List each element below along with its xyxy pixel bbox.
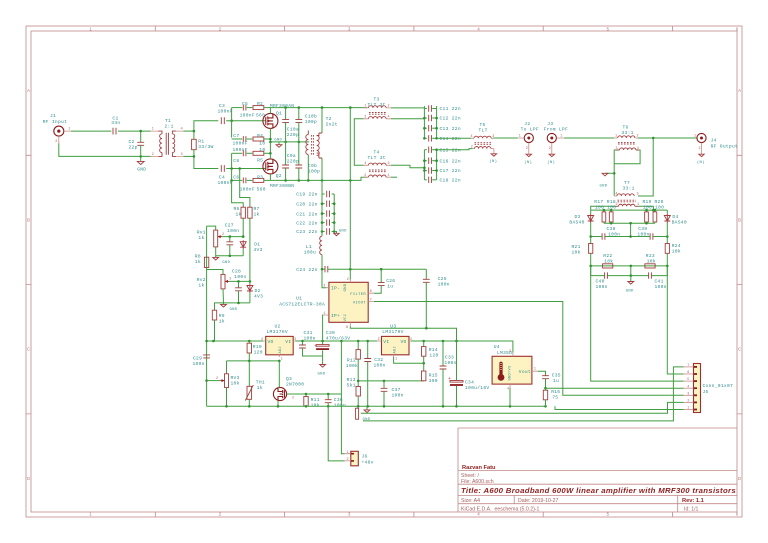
- svg-text:3: 3: [378, 338, 380, 342]
- svg-text:T7: T7: [624, 180, 630, 186]
- wire T4 pin1 stub: [391, 176, 397, 178]
- svg-text:100p: 100p: [308, 169, 320, 175]
- capacitor bank C15-C18: [423, 147, 461, 184]
- wire C40/C41 row: [591, 266, 605, 276]
- capacitor C30 470u/63V: [314, 330, 350, 356]
- wire J1 pin2 loop: [59, 144, 151, 157]
- svg-text:18k: 18k: [604, 259, 613, 265]
- svg-text:T5: T5: [480, 122, 486, 128]
- svg-text:2: 2: [55, 140, 57, 144]
- svg-text:VI: VI: [285, 339, 291, 345]
- capacitor C35: [538, 371, 561, 388]
- transformer T6 33:1: [614, 124, 639, 150]
- svg-text:GND=VS: GND=VS: [509, 365, 513, 381]
- svg-text:TLT 3t: TLT 3t: [368, 102, 386, 108]
- svg-text:GND: GND: [344, 283, 348, 291]
- wire Q2 drain to bottom rail: [269, 174, 271, 181]
- svg-text:R16: R16: [551, 389, 560, 395]
- resistor R22: [603, 253, 614, 268]
- svg-text:100nF: 100nF: [218, 108, 233, 114]
- ground below C2: [137, 156, 146, 172]
- svg-text:C13 22n: C13 22n: [440, 126, 461, 132]
- resistor R19: [643, 199, 653, 223]
- wire detector bottom rail: [591, 265, 668, 267]
- svg-text:FILTER: FILTER: [350, 293, 366, 297]
- wire R16 node to J5 pin4: [546, 387, 684, 389]
- transformer T7 33:1: [614, 180, 639, 207]
- svg-text:C33: C33: [445, 355, 454, 361]
- svg-text:C15 22n: C15 22n: [440, 147, 461, 153]
- svg-text:3: 3: [364, 116, 366, 120]
- svg-text:R12: R12: [347, 357, 356, 363]
- svg-text:1: 1: [615, 135, 617, 139]
- svg-text:R10: R10: [253, 344, 262, 350]
- svg-text:1: 1: [694, 135, 696, 139]
- svg-text:+: +: [448, 376, 451, 382]
- svg-text:100: 100: [607, 204, 616, 210]
- wire C1 to T1: [118, 130, 151, 132]
- svg-text:5k1: 5k1: [347, 383, 356, 389]
- svg-text:A: A: [27, 88, 30, 93]
- wire J4 node to T7: [638, 138, 653, 196]
- svg-text:6: 6: [370, 290, 372, 294]
- svg-text:1k: 1k: [195, 259, 201, 265]
- svg-text:2: 2: [687, 400, 689, 404]
- capacitor C24: [296, 266, 328, 273]
- svg-text:C22 22n: C22 22n: [296, 220, 317, 226]
- svg-text:T4: T4: [374, 149, 380, 155]
- svg-text:C20 22n: C20 22n: [296, 201, 317, 207]
- svg-text:GND: GND: [230, 308, 238, 312]
- capacitor C36: [325, 394, 346, 408]
- thermistor TH1 1k: [245, 361, 265, 406]
- regulator U2 LM317HV: [261, 324, 297, 362]
- svg-text:33:1: 33:1: [622, 130, 634, 136]
- svg-text:2N7000: 2N7000: [286, 381, 304, 387]
- wire bank2 to T5: [437, 149, 473, 150]
- svg-text:C3: C3: [219, 103, 225, 109]
- svg-text:2: 2: [471, 146, 473, 150]
- resistor R18: [607, 199, 617, 223]
- wire center tap down: [630, 223, 632, 236]
- wire T1 to R1/C3: [183, 130, 194, 132]
- svg-text:10: 10: [259, 140, 265, 146]
- svg-text:C28: C28: [232, 269, 241, 275]
- svg-text:C38: C38: [607, 226, 616, 232]
- wire T6 secondary left down: [614, 150, 616, 196]
- connector J3 From LPF: [544, 121, 568, 165]
- wire +48V rail: [207, 340, 264, 342]
- svg-text:C32: C32: [374, 357, 383, 363]
- svg-text:100: 100: [595, 204, 604, 210]
- svg-text:4: 4: [181, 128, 183, 132]
- wire J1 to C1: [71, 130, 111, 132]
- svg-text:GND: GND: [626, 290, 634, 294]
- svg-text:1k: 1k: [219, 318, 225, 324]
- svg-text:1: 1: [687, 407, 689, 411]
- svg-text:2: 2: [410, 338, 412, 342]
- svg-text:Rev: 1.1: Rev: 1.1: [682, 498, 704, 504]
- svg-text:ACS712ELCTR-30A: ACS712ELCTR-30A: [279, 302, 325, 308]
- svg-text:10: 10: [259, 147, 265, 153]
- svg-text:4: 4: [507, 387, 509, 391]
- svg-text:R3: R3: [257, 175, 263, 181]
- svg-text:D: D: [27, 476, 30, 481]
- svg-text:TLT 3t: TLT 3t: [368, 155, 386, 161]
- svg-text:Q1: Q1: [276, 110, 282, 116]
- svg-text:Rv2: Rv2: [197, 277, 206, 283]
- svg-text:R14: R14: [429, 347, 438, 353]
- svg-text:R19: R19: [643, 199, 652, 205]
- wire J5 pin7 return: [363, 367, 684, 421]
- wire U1 IP+ to +48 rail: [322, 315, 324, 341]
- svg-text:R22: R22: [603, 253, 612, 259]
- diode D4 BAS40: [664, 210, 687, 236]
- svg-text:File: A600.sch: File: A600.sch: [461, 479, 494, 485]
- svg-text:33/3W: 33/3W: [198, 144, 213, 150]
- wire gate node A riser: [231, 108, 233, 138]
- svg-text:A: A: [738, 88, 741, 93]
- svg-text:Q3: Q3: [286, 376, 292, 382]
- svg-text:100n: 100n: [304, 335, 316, 341]
- svg-text:VIOUT: VIOUT: [353, 301, 367, 305]
- svg-text:C31: C31: [304, 330, 313, 336]
- svg-text:2: 2: [261, 338, 263, 342]
- svg-text:1: 1: [519, 135, 521, 139]
- svg-text:100n: 100n: [637, 232, 649, 238]
- svg-text:C5: C5: [242, 101, 248, 107]
- svg-text:J2: J2: [524, 121, 530, 127]
- svg-text:R7: R7: [254, 206, 260, 212]
- resistor R10 120: [247, 341, 263, 361]
- svg-text:33:1: 33:1: [623, 186, 635, 192]
- resistor R21: [572, 237, 593, 266]
- svg-text:10k: 10k: [672, 249, 681, 255]
- potentiometer RV2 1k: [197, 270, 232, 303]
- svg-text:C12 22n: C12 22n: [440, 116, 461, 122]
- resistor R16 75: [543, 387, 560, 406]
- svg-text:100n: 100n: [227, 228, 239, 234]
- svg-text:C18 22n: C18 22n: [440, 178, 461, 184]
- svg-text:100p: 100p: [305, 119, 317, 125]
- svg-text:3: 3: [323, 285, 325, 289]
- wire T3 pin2 to cap bank: [391, 107, 424, 109]
- capacitor bank C11-C14: [423, 105, 461, 142]
- svg-text:VCC: VCC: [344, 313, 348, 321]
- svg-text:100n: 100n: [608, 232, 620, 238]
- svg-text:R18: R18: [607, 199, 616, 205]
- wire bank1 to T5: [437, 137, 472, 139]
- svg-text:KiCad E.D.A. eeschema (5.0.2): KiCad E.D.A. eeschema (5.0.2)-1: [461, 507, 540, 513]
- svg-text:100n: 100n: [655, 284, 667, 290]
- svg-text:R11: R11: [311, 397, 320, 403]
- svg-text:C11 22n: C11 22n: [440, 106, 461, 112]
- wire C38/C39 row: [591, 236, 602, 238]
- transformer T3 TLT 3t: [364, 97, 392, 120]
- svg-text:C17 22n: C17 22n: [440, 168, 461, 174]
- svg-text:22p: 22p: [129, 144, 138, 150]
- svg-text:MRF300BN: MRF300BN: [270, 183, 294, 189]
- capacitor ladder C19-C23: [296, 191, 335, 235]
- svg-text:D1: D1: [254, 241, 260, 247]
- wire bias gnd row 1: [216, 255, 244, 257]
- svg-text:C9a: C9a: [287, 153, 296, 159]
- svg-text:R20: R20: [655, 199, 664, 205]
- svg-text:RF Input: RF Input: [43, 119, 67, 125]
- svg-text:120: 120: [254, 349, 263, 355]
- svg-text:3: 3: [637, 193, 639, 197]
- ground main rail: [363, 406, 371, 422]
- svg-text:C27: C27: [225, 223, 234, 229]
- svg-text:T3: T3: [374, 97, 380, 103]
- svg-text:C30: C30: [326, 330, 335, 336]
- svg-text:Title: A600 Broadband 600W lin: Title: A600 Broadband 600W linear amplif…: [461, 486, 736, 495]
- svg-text:C21 22n: C21 22n: [296, 211, 317, 217]
- svg-text:R1: R1: [198, 139, 204, 145]
- svg-text:J4: J4: [711, 137, 717, 143]
- wire sense column to U1 pin3: [322, 269, 326, 288]
- wire mid ground row: [270, 141, 309, 143]
- svg-text:TLT: TLT: [479, 128, 488, 134]
- svg-text:(N): (N): [697, 160, 705, 165]
- svg-text:LM317HV: LM317HV: [267, 329, 288, 335]
- svg-text:3: 3: [294, 338, 296, 342]
- svg-text:Id: 1/1: Id: 1/1: [684, 507, 699, 513]
- svg-text:+48v: +48v: [362, 459, 374, 465]
- svg-text:10k: 10k: [572, 250, 581, 256]
- resistor R23: [645, 253, 656, 268]
- svg-text:220p: 220p: [287, 159, 299, 165]
- wire Q1 source down: [269, 128, 271, 142]
- svg-text:100n: 100n: [374, 362, 386, 368]
- svg-text:J6: J6: [362, 453, 368, 459]
- svg-text:4V3: 4V3: [254, 293, 263, 299]
- svg-text:C39: C39: [638, 226, 647, 232]
- svg-text:10k: 10k: [647, 259, 656, 265]
- svg-text:GND: GND: [274, 139, 282, 143]
- svg-text:GND: GND: [318, 373, 326, 377]
- resistor R17: [594, 199, 605, 223]
- wire J5 pin6 from R24: [667, 266, 683, 374]
- svg-text:2x2t: 2x2t: [326, 122, 338, 128]
- connector J5 Conn_01x07: [684, 364, 733, 413]
- svg-text:R5: R5: [257, 158, 263, 164]
- svg-text:C4: C4: [219, 175, 225, 181]
- svg-text:C37: C37: [392, 387, 401, 393]
- svg-text:100: 100: [643, 204, 652, 210]
- svg-text:4: 4: [364, 162, 366, 166]
- svg-text:4V3: 4V3: [254, 247, 263, 253]
- svg-text:3: 3: [388, 162, 390, 166]
- svg-text:VO: VO: [268, 339, 274, 345]
- resistor R9 1k: [212, 303, 225, 341]
- wire U2 VO left rail + R8 column: [206, 226, 208, 406]
- svg-text:100u: 100u: [304, 249, 316, 255]
- wire T3 pin3 to T4 pin4: [354, 119, 363, 166]
- svg-text:1k: 1k: [257, 385, 263, 391]
- svg-text:6: 6: [687, 371, 689, 375]
- wire bottom ground rail: [207, 405, 546, 407]
- svg-text:2: 2: [292, 397, 294, 401]
- potentiometer RV1 1k: [197, 226, 225, 256]
- wire U4 gnd down: [509, 388, 511, 406]
- wire bottom drain rail: [270, 177, 367, 180]
- ground detector: [626, 266, 634, 294]
- net-tie symbol: [356, 408, 359, 419]
- ground bias 2: [221, 303, 238, 312]
- capacitor C4: [218, 165, 233, 186]
- svg-text:4: 4: [687, 385, 689, 389]
- wire T7 secondary right to rail: [639, 206, 654, 210]
- svg-text:1: 1: [534, 367, 536, 371]
- capacitor C10a: [282, 108, 299, 142]
- zener D1 4V3: [240, 240, 262, 256]
- wire top drain rail: [270, 107, 367, 109]
- svg-text:R21: R21: [572, 244, 581, 250]
- svg-text:100nF: 100nF: [218, 180, 233, 186]
- svg-text:1: 1: [68, 128, 70, 132]
- capacitor C40: [596, 272, 608, 289]
- capacitor C8 + resistor R5 chain: [232, 147, 271, 164]
- svg-text:C10a: C10a: [287, 126, 299, 132]
- svg-text:Size: A4: Size: A4: [461, 498, 480, 504]
- op-amp U1 ACS712 current sensor: [279, 278, 374, 330]
- svg-text:220p: 220p: [287, 132, 299, 138]
- svg-text:2: 2: [347, 458, 349, 462]
- svg-text:C10b: C10b: [305, 113, 317, 119]
- svg-text:2: 2: [216, 377, 218, 381]
- capacitor C37: [381, 381, 404, 406]
- svg-text:1: 1: [388, 174, 390, 178]
- wire T6 to J4: [638, 137, 697, 139]
- wire U2 ADJ node row: [227, 360, 280, 362]
- resistor R24: [665, 237, 681, 266]
- resistor R11 10k: [304, 394, 320, 408]
- ground mid PA: [274, 139, 282, 148]
- svg-text:C19 22n: C19 22n: [296, 192, 317, 198]
- wire VCC line to rail: [350, 326, 456, 341]
- svg-text:IP-: IP-: [331, 286, 340, 292]
- capacitor C25: [423, 269, 450, 328]
- svg-text:C8: C8: [233, 158, 239, 164]
- svg-text:C34: C34: [465, 379, 474, 385]
- svg-text:1k: 1k: [198, 235, 204, 241]
- wire T3 pin4 to cap bank: [391, 118, 424, 120]
- wire R12/R13 node row: [358, 380, 424, 382]
- svg-text:U1: U1: [296, 296, 302, 302]
- wire RF sense column x=322: [321, 180, 323, 194]
- svg-text:C40: C40: [596, 278, 605, 284]
- svg-text:GND: GND: [137, 167, 146, 173]
- wire J5 pin1: [555, 406, 684, 409]
- connector J2 To LPF: [518, 121, 539, 165]
- resistor R20: [653, 199, 664, 223]
- svg-text:3: 3: [181, 153, 183, 157]
- svg-text:RV3: RV3: [231, 375, 240, 381]
- svg-text:1u: 1u: [553, 378, 559, 384]
- svg-text:1: 1: [364, 105, 366, 109]
- sensor U4 LM35: [492, 344, 538, 391]
- resistor R13 5k1: [347, 377, 361, 406]
- svg-text:(N): (N): [524, 160, 532, 165]
- svg-text:U3: U3: [390, 324, 396, 330]
- svg-text:LM317HV: LM317HV: [382, 329, 403, 335]
- capacitor C7 + resistor R4 chain: [232, 133, 271, 147]
- capacitor C9a: [282, 142, 299, 181]
- transformer T1 2:1: [151, 118, 184, 157]
- svg-text:Razvan Fatu: Razvan Fatu: [462, 465, 496, 471]
- wire C3 to Q1 gate: [226, 120, 266, 122]
- svg-text:D3: D3: [575, 214, 581, 220]
- svg-text:1k: 1k: [236, 212, 242, 218]
- svg-text:100n: 100n: [438, 282, 450, 288]
- svg-text:1k: 1k: [254, 212, 260, 218]
- capacitor C3: [218, 103, 233, 124]
- svg-text:Conn_01x07: Conn_01x07: [703, 383, 734, 389]
- svg-text:R17: R17: [594, 199, 603, 205]
- svg-text:2: 2: [699, 147, 701, 151]
- wire T4 pin3 to cap bank 2: [391, 165, 424, 168]
- svg-text:ADJ: ADJ: [279, 346, 283, 353]
- svg-text:GND: GND: [600, 184, 608, 188]
- wire J5 pin2 return: [361, 402, 684, 413]
- svg-text:1: 1: [323, 312, 325, 316]
- svg-text:R4: R4: [257, 133, 263, 139]
- svg-text:7: 7: [687, 364, 689, 368]
- wire C4 to Q2 gate: [226, 168, 266, 170]
- capacitor C27: [225, 223, 240, 256]
- svg-text:100n: 100n: [596, 284, 608, 290]
- wire J6 pin2 gnd column: [328, 406, 344, 461]
- svg-text:U2: U2: [275, 324, 281, 330]
- wire T5 to J2: [494, 137, 518, 139]
- svg-text:Rv1: Rv1: [197, 229, 206, 235]
- svg-text:100nF: 100nF: [240, 113, 255, 119]
- wire T7 secondary left to rail: [591, 206, 616, 210]
- svg-text:C6: C6: [233, 175, 239, 181]
- svg-text:4: 4: [388, 116, 390, 120]
- ground below C30: [318, 356, 326, 377]
- wire gate node B riser: [231, 153, 233, 180]
- svg-text:3: 3: [687, 392, 689, 396]
- svg-text:100n: 100n: [444, 360, 456, 366]
- capacitor C9b: [295, 142, 320, 181]
- svg-text:L1: L1: [306, 244, 312, 250]
- resistor R6 1k: [232, 180, 246, 236]
- svg-text:7: 7: [370, 299, 372, 303]
- svg-text:75: 75: [552, 394, 558, 400]
- transistor Q1 MRF300AN: [263, 103, 294, 128]
- svg-text:C26: C26: [386, 278, 395, 284]
- wire sense rail y=269.2: [322, 268, 325, 270]
- svg-text:R8: R8: [195, 253, 201, 259]
- svg-text:2: 2: [364, 174, 366, 178]
- svg-text:Vout: Vout: [519, 369, 531, 375]
- svg-text:+: +: [314, 344, 317, 350]
- transistor Q2 MRF300BN: [263, 159, 294, 189]
- svg-text:120: 120: [429, 352, 438, 358]
- svg-text:100n: 100n: [234, 274, 246, 280]
- svg-text:2: 2: [526, 147, 528, 151]
- svg-text:100: 100: [655, 204, 664, 210]
- svg-text:MRF300AN: MRF300AN: [270, 103, 294, 109]
- resistor R15 390: [422, 363, 438, 384]
- wire J5 pin5 from R21: [591, 266, 684, 381]
- svg-text:1k: 1k: [198, 282, 204, 288]
- wire T6 secondary right loop: [614, 150, 640, 164]
- connector J4 RF Output: [694, 133, 738, 165]
- svg-text:1: 1: [395, 358, 397, 362]
